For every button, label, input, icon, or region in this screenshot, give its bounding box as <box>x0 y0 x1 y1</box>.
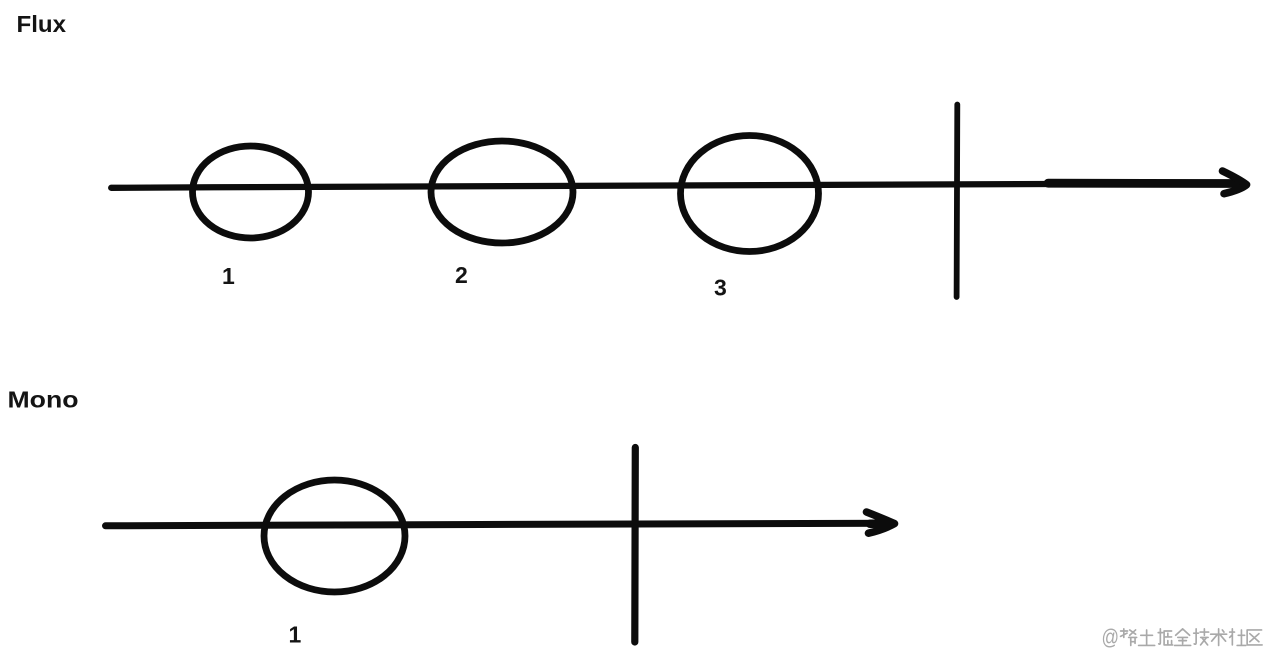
svg-text:Flux: Flux <box>17 11 67 37</box>
svg-text:1: 1 <box>222 263 235 289</box>
svg-text:1: 1 <box>289 622 302 648</box>
svg-text:Mono: Mono <box>8 387 79 413</box>
svg-text:2: 2 <box>455 262 468 288</box>
svg-text:@: @ <box>1102 625 1120 650</box>
svg-text:3: 3 <box>714 275 727 301</box>
